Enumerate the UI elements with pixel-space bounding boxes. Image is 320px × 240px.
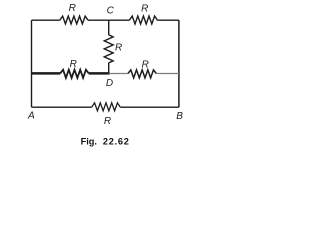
svg-text:B: B [176,111,183,122]
svg-text:R: R [142,59,149,70]
svg-text:D: D [106,78,113,89]
svg-text:R: R [70,59,77,70]
svg-text:R: R [115,42,122,53]
svg-text:R: R [141,3,148,14]
svg-text:C: C [107,6,115,17]
svg-text:R: R [69,3,76,14]
svg-text:22.62: 22.62 [103,137,130,147]
svg-text:A: A [27,111,35,122]
svg-text:Fig.: Fig. [81,137,97,147]
svg-text:R: R [104,116,111,127]
